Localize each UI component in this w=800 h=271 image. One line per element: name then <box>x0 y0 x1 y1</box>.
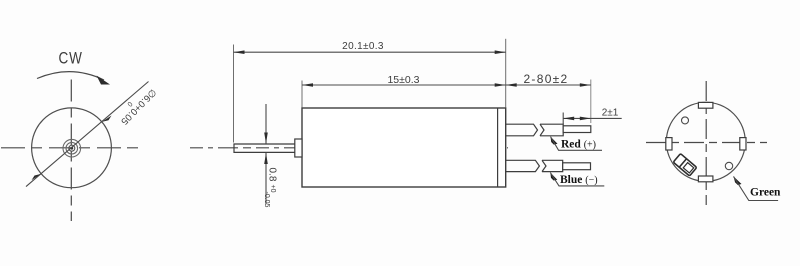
motor body rectangle <box>302 108 506 187</box>
green label leader line <box>734 176 779 200</box>
diameter dimension diagonal line <box>26 82 149 187</box>
red wire stripped end <box>563 126 591 133</box>
rear view circle <box>666 102 745 181</box>
blue wire insulation segment 1 <box>506 160 540 171</box>
CW arc arrowhead <box>97 76 111 85</box>
diameter dim arrow lower (pointing up-right) <box>32 174 42 180</box>
shaft outline <box>234 144 295 152</box>
2±1 extension tick <box>562 113 564 125</box>
2-80 left arrow <box>506 83 517 87</box>
terminal connector block <box>673 154 697 176</box>
0.8 +0/-0.05 rotated text <box>263 168 278 208</box>
diameter dim arrow upper (pointing down-left) <box>102 116 112 122</box>
0.8 lower arrowhead (up) <box>264 153 268 164</box>
red label leader line <box>551 137 603 151</box>
left tab <box>666 138 672 150</box>
rear hole upper-left <box>682 117 689 124</box>
bottom tab <box>698 176 713 182</box>
rear view vertical centerline <box>705 81 707 205</box>
0.8 dim lower arrow line <box>265 153 267 204</box>
2-80 right arrow <box>580 83 591 87</box>
svg-text:CW: CW <box>59 49 83 68</box>
shaft center ring 1 <box>63 139 81 157</box>
shaft center dot <box>70 147 73 150</box>
blue label leader line <box>550 173 604 186</box>
end cap seam line <box>497 109 499 187</box>
dimension 2±1 line with tail <box>563 117 622 119</box>
top tab <box>698 102 713 108</box>
front view vertical centerline <box>70 80 72 222</box>
dimension 20.1±0.3 line <box>234 51 506 53</box>
svg-text:Blue (−): Blue (−) <box>560 174 598 186</box>
bushing <box>295 139 302 157</box>
svg-text:∅6.0+0.05: ∅6.0+0.05 <box>118 86 158 126</box>
rear view horizontal centerline <box>646 142 767 144</box>
CW rotation arc arrow <box>37 72 104 80</box>
blue label leader arrowhead <box>550 173 557 181</box>
svg-text:Green: Green <box>750 187 781 199</box>
svg-text:20.1±0.3: 20.1±0.3 <box>342 41 384 52</box>
svg-text:0.8: 0.8 <box>267 168 278 182</box>
blue wire stripped end <box>563 163 591 170</box>
15 left arrow <box>302 83 313 87</box>
15 right arrow <box>495 83 506 87</box>
2±1 left arrow <box>563 117 574 121</box>
shaft center ring 2 <box>66 142 78 154</box>
right tab <box>740 138 746 150</box>
extension line left (shaft tip) <box>233 45 235 143</box>
blue wire insulation segment 2 <box>542 160 563 171</box>
dim text ⌀6.0+0.05 (upside down along line) <box>114 82 158 127</box>
0.8 dim upper arrow line <box>265 104 267 144</box>
red wire break chevron <box>540 124 544 136</box>
green label leader arrowhead <box>734 176 742 185</box>
red wire insulation segment 1 <box>506 124 538 136</box>
side view centerline <box>190 147 508 149</box>
svg-text:15±0.3: 15±0.3 <box>387 74 419 86</box>
red wire insulation segment 2 <box>540 124 563 136</box>
rear hole lower-right <box>725 162 732 169</box>
svg-text:2±1: 2±1 <box>602 108 619 119</box>
shaft center ring 3 <box>69 145 75 151</box>
2±1 right arrow <box>580 117 591 121</box>
20.1 left arrow <box>234 50 245 54</box>
blue wire break chevron <box>542 160 546 171</box>
front view motor body circle <box>32 108 112 188</box>
dimension 15±0.3 line <box>302 84 506 86</box>
red label leader arrowhead <box>551 137 558 145</box>
extension line wire end <box>590 80 592 124</box>
svg-text:Red (+): Red (+) <box>561 139 596 151</box>
front view horizontal centerline <box>1 147 139 149</box>
svg-text:-0.05: -0.05 <box>263 192 270 208</box>
0.8 upper arrowhead (down) <box>264 133 268 144</box>
extension line body left <box>301 81 303 108</box>
extension line body right <box>505 39 507 108</box>
20.1 right arrow <box>495 50 506 54</box>
dimension 2-80±2 line <box>506 84 591 86</box>
svg-text:2-80±2: 2-80±2 <box>523 72 568 86</box>
